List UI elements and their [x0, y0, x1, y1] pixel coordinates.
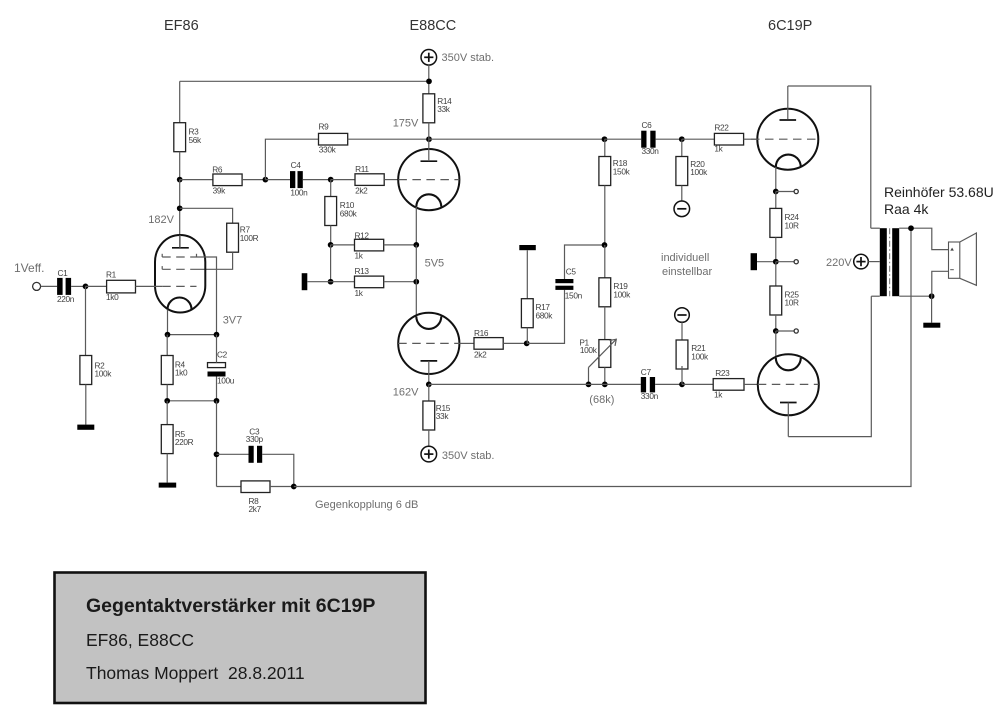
terminal 350V stab upper [421, 50, 437, 66]
wire 220V to primary [868, 261, 880, 263]
transformer secondary winding [892, 228, 899, 296]
node input junction [83, 284, 89, 290]
resistor R15 [423, 401, 435, 430]
wire R20 top lead [681, 139, 683, 156]
node R16/R17/C5 junction [524, 341, 530, 347]
wire R21 top lead [681, 322, 683, 340]
resistor R24 [770, 208, 782, 237]
node 350V junction [426, 78, 432, 84]
wire R12 right lead [384, 244, 417, 246]
svg-text:3V7: 3V7 [223, 315, 243, 327]
node feedback tap [908, 225, 914, 231]
wire anode to transformer top [788, 86, 871, 228]
svg-text:150n: 150n [565, 291, 583, 301]
node anode/R7 junction [177, 205, 183, 211]
test point 3 [794, 329, 798, 333]
svg-text:(68k): (68k) [589, 394, 614, 406]
tube EF86 grid g3 [162, 256, 196, 258]
node 175V junction [426, 136, 432, 142]
tube 6C19P lower cathode [776, 358, 801, 370]
wire to test point 3 [776, 330, 794, 332]
resistor R20 [676, 157, 688, 186]
svg-text:EF86, E88CC: EF86, E88CC [86, 630, 194, 650]
tube E88CC upper cathode [416, 194, 441, 207]
svg-text:Gegentaktverstärker mit 6C19P: Gegentaktverstärker mit 6C19P [86, 595, 375, 617]
wire R13 left lead [331, 281, 355, 283]
tube E88CC lower envelope [398, 313, 459, 374]
wire R3 top lead [179, 81, 181, 122]
wire secondary top [899, 228, 948, 249]
test point 1 [794, 189, 798, 193]
capacitor C4 [290, 171, 295, 188]
svg-text:Gegenkopplung 6 dB: Gegenkopplung 6 dB [315, 499, 418, 511]
node test point 1 [773, 189, 779, 195]
wire R2 branch [85, 286, 87, 355]
resistor R21 [676, 340, 688, 369]
svg-text:1Veff.: 1Veff. [14, 261, 44, 275]
svg-text:1k: 1k [714, 389, 723, 399]
wire 350V stem [428, 65, 430, 94]
wire R8 left lead [217, 486, 242, 488]
node C4/R11/R10 junction [328, 177, 334, 183]
capacitor C2 bottom plate [208, 372, 226, 377]
svg-text:R12: R12 [355, 230, 370, 240]
wire R23 to lower 6C19P grid [744, 383, 758, 385]
potentiometer P1 [599, 340, 611, 368]
capacitor C7 [641, 377, 646, 392]
svg-text:330n: 330n [641, 391, 659, 401]
wire rail R18 to C6 [605, 138, 642, 140]
resistor R25 [770, 286, 782, 315]
resistor R11 [355, 174, 384, 186]
wire C3/R8 branch vertical [216, 401, 218, 487]
resistor R4 [161, 356, 173, 385]
wire to ground [931, 296, 933, 323]
svg-text:R22: R22 [714, 123, 729, 133]
wire C4 left lead [265, 179, 290, 181]
svg-text:2k7: 2k7 [249, 504, 262, 514]
tube E88CC lower grid [398, 342, 459, 344]
node R18 top [602, 136, 608, 142]
wire feedback line [294, 228, 911, 486]
svg-text:100k: 100k [580, 345, 598, 355]
wire rail riser [265, 139, 318, 179]
title block box [55, 573, 426, 704]
node R6/C4/rail junction [263, 177, 269, 183]
test point 2 [794, 260, 798, 264]
resistor R18 [599, 157, 611, 186]
wire top-left rail from R3 to 350V node [180, 80, 429, 82]
wire R4 top lead [166, 335, 168, 356]
terminal minus below R20 [674, 201, 690, 217]
svg-text:100k: 100k [690, 167, 708, 177]
svg-text:6C19P: 6C19P [768, 18, 812, 34]
wire R4 bottom [166, 385, 168, 401]
node R13 right [413, 279, 419, 285]
wire C4 right lead [303, 179, 331, 181]
wire R11 left lead [331, 179, 355, 181]
resistor R16 [474, 338, 503, 350]
svg-text:C6: C6 [642, 120, 653, 130]
resistor R6 [213, 174, 242, 186]
svg-text:10R: 10R [785, 220, 800, 230]
node secondary ground junction [929, 293, 935, 299]
wire input to C1 [41, 285, 57, 287]
wire R12 left lead [331, 244, 355, 246]
wire R19 top lead [604, 245, 606, 278]
wire R17 bottom lead [526, 328, 528, 344]
wire C1 to node [71, 285, 85, 287]
resistor R19 [599, 278, 611, 307]
capacitor C1 [57, 278, 63, 295]
resistor R13 [355, 276, 384, 288]
resistor R3 [174, 123, 186, 152]
svg-text:162V: 162V [393, 387, 419, 399]
resistor R2 [80, 356, 92, 385]
wire lower anode to transformer bottom [788, 296, 871, 436]
svg-text:E88CC: E88CC [410, 18, 457, 34]
wire rail to R18 node [429, 138, 605, 140]
wire R5 to ground [166, 454, 168, 483]
terminal minus above R21 [675, 308, 690, 323]
svg-text:R13: R13 [355, 266, 370, 276]
wire P1 wiper lead [588, 367, 590, 384]
tube E88CC upper grid [398, 179, 459, 181]
wire C5 lower link [527, 290, 565, 344]
wire R18 top lead [604, 139, 606, 156]
svg-text:182V: 182V [148, 214, 174, 226]
wire P1 bottom lead [604, 367, 606, 384]
wire C2 leads [216, 335, 218, 363]
node R18/R19/C5 junction [602, 242, 608, 248]
wire secondary bottom [899, 295, 931, 297]
node C3 tap [214, 451, 220, 457]
svg-text:100R: 100R [240, 233, 259, 243]
wire R9 right to 175V node [348, 138, 429, 140]
wire R25 top lead [775, 262, 777, 286]
tube EF86 grid g1 [162, 285, 196, 287]
svg-text:1k: 1k [714, 144, 723, 154]
svg-text:C4: C4 [291, 160, 302, 170]
resistor R17 [521, 299, 533, 328]
resistor R8 [241, 481, 270, 493]
svg-text:2k2: 2k2 [474, 350, 487, 360]
tube 6C19P upper envelope [757, 109, 818, 170]
capacitor C3 [249, 446, 254, 463]
wire C3 left lead [217, 453, 249, 455]
wire R19 bottom lead [604, 307, 606, 340]
svg-text:150k: 150k [613, 166, 631, 176]
tube EF86 cathode lead [167, 310, 169, 335]
svg-text:1k: 1k [355, 288, 364, 298]
svg-text:1k: 1k [355, 250, 364, 260]
wire R25 bottom lead [775, 315, 777, 331]
wire to test point 2 [776, 261, 794, 263]
svg-text:330p: 330p [246, 434, 264, 444]
node cathode/R4 [165, 332, 171, 338]
svg-text:2k2: 2k2 [355, 186, 368, 196]
wire right column to lower cathode [415, 245, 417, 316]
node g3/C2 [214, 332, 220, 338]
wire R15 bottom lead [428, 430, 430, 446]
svg-text:100u: 100u [217, 376, 235, 386]
wire R18 bottom lead [604, 186, 606, 246]
wire R11 right to tube grid [384, 179, 398, 181]
resistor R14 [423, 94, 435, 123]
wire R7 bottom to g2 [197, 252, 233, 269]
wire R7 jog [180, 208, 233, 223]
node R12 left [328, 242, 334, 248]
wire R1 left lead [86, 285, 107, 287]
wire R2 to ground [85, 385, 87, 425]
svg-text:33k: 33k [436, 411, 450, 421]
wire R24 top lead [775, 192, 777, 209]
wire speaker return [932, 271, 949, 296]
terminal bar 6C19P cathodes [751, 253, 757, 270]
node R4/R5 [164, 398, 170, 404]
wire to lower cathode [775, 331, 777, 357]
wire R10 bottom [330, 226, 332, 245]
wire bar to R13 node [307, 281, 330, 283]
tube EF86 cathode [168, 298, 192, 310]
tube EF86 anode [172, 247, 189, 249]
terminal bar above R17 [519, 245, 536, 250]
wire R17 top lead [526, 250, 528, 299]
node R12 right [413, 242, 419, 248]
svg-text:330n: 330n [642, 146, 660, 156]
tube 6C19P lower grid [758, 383, 819, 385]
wire R6 right lead [242, 179, 265, 181]
wire cathode row [168, 334, 217, 336]
speaker driver [949, 242, 960, 278]
svg-text:individuell: individuell [661, 252, 709, 264]
wire R14 bottom [428, 123, 430, 139]
svg-text:R6: R6 [212, 165, 223, 175]
svg-text:100n: 100n [290, 188, 308, 198]
svg-text:175V: 175V [393, 117, 419, 129]
tube EF86 anode lead [179, 235, 181, 248]
resistor R23 [713, 379, 744, 391]
svg-text:220R: 220R [175, 437, 194, 447]
input terminal 1Veff [33, 282, 41, 290]
wire R22 left lead [682, 138, 715, 140]
svg-text:C5: C5 [566, 267, 577, 277]
svg-text:C2: C2 [217, 350, 228, 360]
svg-text:C1: C1 [58, 268, 69, 278]
wire R24 bottom lead [775, 237, 777, 261]
transformer primary winding [880, 228, 887, 296]
capacitor C5 [555, 286, 573, 290]
ground below R2 [77, 425, 94, 430]
node P1 bottom tap [602, 382, 608, 388]
speaker polarity marks [950, 248, 954, 251]
tube EF86 envelope [155, 235, 205, 313]
svg-text:R11: R11 [355, 164, 369, 174]
tube 6C19P lower anode [780, 402, 797, 404]
wire C7 to R21 node [655, 383, 682, 385]
wire primary bottom lead [871, 295, 880, 297]
tube 6C19P upper grid [751, 138, 818, 140]
svg-text:Thomas Moppert 28.8.2011: Thomas Moppert 28.8.2011 [86, 663, 305, 683]
resistor R12 [355, 239, 384, 251]
wire row under R4/C2 [167, 400, 216, 402]
resistor R9 [319, 133, 348, 145]
node R13 left [328, 279, 334, 285]
resistor R22 [714, 133, 743, 145]
node test point 2 [773, 259, 779, 265]
tube E88CC upper anode [421, 160, 438, 162]
svg-text:Raa 4k: Raa 4k [884, 201, 929, 217]
wire R23 left lead [682, 383, 713, 385]
wire C6 to R20 node [656, 138, 682, 140]
node R20 top [679, 136, 685, 142]
tube 6C19P lower envelope [758, 354, 819, 415]
svg-text:R1: R1 [106, 270, 117, 280]
svg-text:39k: 39k [213, 186, 227, 196]
terminal 350V stab lower [421, 446, 437, 462]
transformer core [889, 228, 891, 296]
tube E88CC upper envelope [398, 149, 459, 210]
wire R20 bottom lead [681, 186, 683, 202]
svg-text:5V5: 5V5 [425, 258, 445, 270]
ground below speaker [923, 323, 940, 328]
svg-text:EF86: EF86 [164, 18, 199, 34]
node R3/R6/anode junction [177, 177, 183, 183]
svg-text:10R: 10R [785, 298, 800, 308]
wire E88CC upper cathode lead [415, 207, 417, 245]
node R21 bottom [679, 382, 685, 388]
wire R16 right lead [503, 342, 527, 344]
svg-text:330k: 330k [319, 144, 337, 154]
terminal bar E88CC [302, 273, 308, 290]
wire left column R12-R13 [330, 245, 332, 282]
wire bar to node [757, 261, 776, 263]
svg-text:350V stab.: 350V stab. [442, 450, 495, 462]
svg-text:100k: 100k [613, 289, 631, 299]
wire primary top lead [871, 227, 880, 229]
wire g3 to cathode link [197, 257, 217, 335]
wire R8 right lead [270, 486, 294, 488]
svg-text:C7: C7 [641, 367, 652, 377]
wire 6C19P upper cathode lead [775, 167, 777, 192]
svg-text:100k: 100k [95, 369, 113, 379]
node 162V junction [426, 382, 432, 388]
svg-text:680k: 680k [340, 208, 358, 218]
svg-text:1k0: 1k0 [175, 368, 188, 378]
svg-text:350V stab.: 350V stab. [442, 52, 495, 64]
ground below R5 [159, 483, 177, 488]
resistor R10 [330, 180, 332, 197]
wire to test point 1 [776, 191, 794, 193]
svg-text:einstellbar: einstellbar [662, 266, 712, 278]
svg-text:R23: R23 [715, 368, 730, 378]
capacitor C6 [641, 131, 646, 148]
wire grid to R16 [459, 342, 474, 344]
tube E88CC lower cathode [416, 316, 441, 329]
svg-text:220V: 220V [826, 257, 852, 269]
wire R6 left lead [180, 179, 213, 181]
node C2 bottom [214, 398, 220, 404]
resistor R5 [166, 401, 168, 425]
node test point 3 [773, 328, 779, 334]
wire anode vertical [179, 180, 181, 248]
svg-text:R16: R16 [474, 328, 489, 338]
svg-text:100k: 100k [691, 351, 709, 361]
capacitor C2 top plate [208, 363, 226, 368]
tube E88CC lower anode [421, 360, 438, 362]
svg-text:1k0: 1k0 [106, 292, 119, 302]
wire R21 bottom lead [681, 366, 683, 384]
wire C3 right lead [262, 454, 294, 486]
wire 162V rail [429, 383, 641, 385]
svg-text:33k: 33k [437, 104, 451, 114]
wire R22 to upper 6C19P grid [744, 138, 758, 140]
svg-text:R9: R9 [319, 122, 330, 132]
svg-text:Reinhöfer 53.68U: Reinhöfer 53.68U [884, 184, 994, 200]
potentiometer P1 wiper arrow [589, 339, 617, 367]
svg-text:680k: 680k [536, 310, 554, 320]
node P1 wiper tap [586, 382, 592, 388]
resistor R7 [227, 223, 239, 252]
tube 6C19P upper cathode [776, 155, 801, 167]
wire R1 to tube grid [136, 285, 163, 287]
resistor R1 [107, 280, 136, 293]
tube EF86 grid g2 [162, 268, 197, 270]
wire R13 right lead [384, 281, 417, 283]
tube 6C19P upper anode [780, 119, 797, 121]
svg-text:220n: 220n [57, 294, 75, 304]
wire R15 top lead [428, 384, 430, 401]
wire C5 upper link [565, 245, 605, 279]
node feedback junction [291, 484, 297, 490]
svg-text:56k: 56k [189, 135, 203, 145]
wire R3 bottom to node [179, 152, 181, 180]
speaker horn [960, 233, 977, 285]
